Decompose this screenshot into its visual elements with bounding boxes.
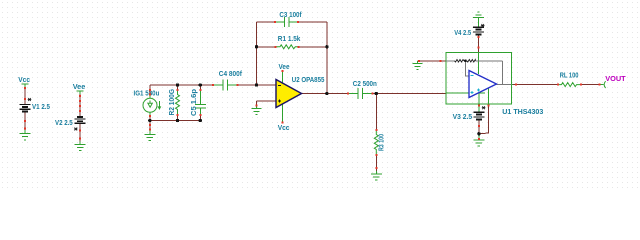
- svg-text:C2 500n: C2 500n: [353, 79, 377, 88]
- svg-text:U1 THS4303: U1 THS4303: [502, 107, 543, 116]
- svg-text:C5 1.6p: C5 1.6p: [189, 89, 198, 116]
- svg-text:Vcc: Vcc: [18, 75, 30, 84]
- svg-text:R3 100: R3 100: [377, 134, 386, 151]
- svg-text:Vee: Vee: [73, 82, 86, 91]
- svg-text:Vee: Vee: [279, 62, 290, 71]
- svg-text:RL 100: RL 100: [560, 71, 579, 80]
- svg-text:U2 OPA855: U2 OPA855: [292, 75, 325, 84]
- svg-text:VOUT: VOUT: [605, 74, 626, 83]
- svg-text:Vcc: Vcc: [278, 123, 290, 132]
- svg-text:C4 800f: C4 800f: [219, 69, 243, 78]
- svg-text:C3 100f: C3 100f: [279, 10, 302, 19]
- svg-text:R1 1.5k: R1 1.5k: [278, 34, 301, 43]
- svg-text:V3 2.5: V3 2.5: [453, 112, 473, 121]
- svg-text:R2 100G: R2 100G: [167, 89, 176, 116]
- svg-text:V2 2.5: V2 2.5: [55, 118, 73, 127]
- svg-text:IG1 580u: IG1 580u: [134, 89, 160, 98]
- svg-text:V1 2.5: V1 2.5: [32, 102, 50, 111]
- svg-text:V4 2.5: V4 2.5: [454, 28, 471, 37]
